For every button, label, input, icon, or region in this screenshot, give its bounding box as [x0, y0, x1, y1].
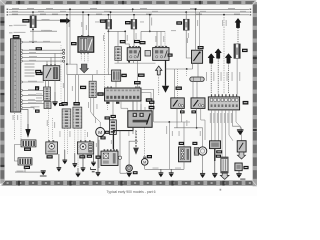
cigar lighter unit I (striped)	[221, 157, 228, 173]
label box 215	[87, 155, 92, 158]
diode unit J	[235, 163, 242, 171]
flasher/relay unit A with top pins	[127, 46, 140, 60]
fuel gauge sender (striped box)	[18, 158, 32, 165]
wire connector feeds 2	[67, 75, 69, 102]
junction bus X right	[223, 14, 225, 16]
label box 203 (connector E)	[243, 101, 249, 105]
junction bus 30 at 133	[132, 8, 134, 10]
wire bottom run y63	[115, 62, 156, 64]
washer pump M2 circle	[198, 147, 206, 155]
wire pill out 1	[192, 81, 194, 98]
wire code beside 150 drop	[150, 18, 153, 26]
wire C30 out 2	[94, 98, 100, 128]
wire bus 15 to ignition switch	[82, 12, 84, 37]
wire ignition out dashed 2	[83, 52, 85, 61]
wire 141 drop	[140, 31, 142, 40]
main harness connector E with pin row	[208, 94, 239, 110]
wire 150 drop	[149, 15, 151, 32]
wire 125 down to unit A	[125, 31, 129, 47]
border frame bottom bar with grid cells	[2, 180, 256, 186]
wire fuse panel out t1	[23, 49, 63, 51]
wire up arrow stem	[158, 75, 160, 95]
wire relay out to arrow	[54, 81, 56, 92]
wire C41 out	[117, 60, 119, 63]
wire connE out 2	[214, 110, 216, 141]
junction bus 15 ignition feed	[82, 11, 84, 13]
bold down arrow from ignition switch	[80, 64, 88, 73]
wire fuse 5 out	[236, 58, 238, 94]
wire M3 out	[144, 165, 146, 169]
relay K (right edge)	[237, 141, 246, 152]
wire fuse panel out b3	[23, 94, 43, 96]
wire ground run y169	[145, 168, 184, 170]
scattered wire code labels	[13, 20, 227, 147]
wire connE out 5	[225, 110, 227, 157]
wire relay coil feed 2	[50, 57, 52, 65]
junction bus 30 at 70	[69, 8, 71, 10]
hazard/relay unit B with top pins	[153, 46, 169, 60]
wire gauge1 feed2 dashed	[52, 118, 54, 142]
wire fuse 1 output to arrow	[36, 19, 60, 21]
wire fuse panel out t3	[23, 56, 63, 58]
wire light switch feed 3	[144, 107, 146, 111]
junction at 125	[124, 31, 126, 33]
wire fuse panel bottom to gauges	[21, 110, 28, 125]
label box 220 (horn)	[133, 171, 138, 174]
label box 213 (temp gauge)	[47, 155, 53, 158]
junction fuse 1 to panel wire	[32, 41, 34, 43]
ground arrow g6	[76, 168, 81, 177]
wire connE out 4	[221, 110, 223, 157]
label box 119	[179, 142, 184, 145]
ground arrow right mid	[237, 130, 244, 135]
wire switch E1 out mid	[181, 108, 183, 122]
wire drop to main fuse box	[32, 30, 34, 43]
label box 142	[105, 116, 110, 119]
ground arrow g3	[57, 154, 62, 172]
wire run to pump	[197, 128, 203, 147]
label box 126	[134, 40, 140, 43]
label box 163 (relay feed)	[36, 47, 42, 50]
wire strip out 4	[132, 101, 134, 111]
wire relay out 1	[45, 81, 47, 87]
label box 162 (relay)	[35, 70, 41, 73]
wire light switch left feed	[121, 108, 128, 111]
label box 94	[138, 74, 145, 77]
label box 230	[80, 86, 86, 89]
wire pump ground	[202, 155, 204, 170]
ground arrow unit H	[212, 161, 217, 178]
ground arrow unit J	[236, 171, 241, 178]
wire unit A out 1	[129, 60, 131, 63]
label box 190	[176, 87, 182, 90]
hollow down arrow under unit I	[220, 173, 229, 179]
washer pump body (hatched)	[194, 148, 199, 156]
ground arrow g4	[81, 154, 86, 172]
wire fuse 2 feed	[107, 15, 109, 20]
wire switch E2 out 2	[201, 108, 205, 140]
label box 221 (washer pump)	[147, 155, 152, 158]
wire bus 30 (top supply rail)	[9, 8, 249, 10]
ground arrow hr2	[169, 169, 174, 177]
wire code label row 2	[14, 24, 27, 27]
label box 217	[100, 136, 105, 139]
label box 128	[121, 74, 127, 77]
temperature gauge (box with dial)	[46, 140, 58, 154]
wire resistor feed	[183, 122, 185, 147]
windscreen washer pump M3 (small)	[141, 157, 148, 166]
label box 234	[216, 150, 222, 153]
wire horizontal run y75	[67, 74, 112, 76]
junction below fuse 2	[108, 31, 110, 33]
wire long vertical 67	[66, 15, 68, 75]
wire junction to ground run	[168, 122, 170, 169]
ground arrow g5	[91, 154, 96, 166]
wire code labels on supply buses	[12, 8, 246, 15]
wire unit A out 2	[133, 60, 135, 63]
label box 235	[216, 155, 221, 158]
wire heater run	[174, 127, 197, 129]
wire light switch feed 2	[140, 104, 142, 111]
label box 95	[134, 81, 141, 84]
wire connector feeds	[64, 61, 66, 102]
label box 111 (light switch)	[149, 106, 155, 109]
wire gauge2 feed	[84, 130, 86, 142]
junction fuse 1 lower	[32, 29, 34, 31]
label box 240 (fuse panel)	[13, 35, 20, 38]
label box 113 (switch E1)	[180, 110, 185, 113]
wire fuse 2 feed b	[110, 12, 112, 19]
label box 199 (fuse 4)	[176, 21, 182, 24]
blower resistor unit L	[179, 147, 191, 162]
wire fuse 2 out	[107, 29, 109, 31]
battery terminal bracket	[91, 167, 97, 172]
wire gauge feed dashed a	[14, 113, 16, 140]
svg-text:M: M	[143, 160, 146, 164]
wire relay coil feed 1	[46, 61, 48, 66]
wire unit B feed 1	[156, 31, 158, 47]
wire strip out 3	[120, 101, 122, 109]
wiper motor M1	[96, 128, 105, 137]
wire strip out 5	[136, 101, 138, 111]
wire drop to switch E1 a	[174, 69, 176, 98]
label box 200 (fuse 5)	[242, 49, 248, 52]
wire gauge1 feed dashed	[48, 109, 50, 142]
label box 143	[111, 115, 116, 118]
wire fuse panel out b2	[23, 89, 43, 91]
label box 204 (strip right)	[146, 98, 153, 102]
label box 241 (stabiliser)	[24, 148, 31, 151]
wire 133 drop	[132, 9, 134, 12]
wire conn A out 1	[64, 128, 66, 150]
wire horn feed	[129, 141, 138, 165]
wire stabiliser to sender	[15, 145, 22, 162]
light switch assembly	[128, 111, 152, 128]
label box 120	[192, 142, 197, 145]
wire switch E1 out 1	[176, 108, 178, 127]
wire drop to inline fuse	[186, 69, 188, 77]
junction unit A out	[128, 61, 130, 63]
wire code label 30/1	[42, 18, 50, 21]
wire conn A out 2	[67, 128, 69, 154]
wire code label row 3	[14, 31, 26, 34]
label box 197 (fuse 2)	[100, 19, 106, 22]
wire connE out 1	[211, 110, 213, 141]
wire down to relay plate	[107, 31, 109, 74]
connector C12 upper	[44, 87, 51, 100]
connector C12 lower	[44, 102, 51, 109]
label box 198 (fuse 3)	[125, 21, 131, 24]
connector C30	[89, 81, 96, 97]
label box 202 (connector)	[73, 102, 79, 106]
wire switch D out 2	[197, 63, 199, 77]
border frame left bar with grid cells	[0, 0, 7, 184]
fuse F1	[30, 16, 36, 28]
fuse and relay panel (main box)	[11, 39, 21, 112]
fuse F5	[234, 44, 240, 59]
junction lighting run	[168, 121, 170, 123]
wire M3 feed dashed	[144, 127, 146, 156]
wire unit H ground heavy	[214, 149, 216, 161]
wire dashed to connector strip	[104, 33, 106, 88]
bold down arrow into voltage stabiliser	[25, 124, 30, 138]
label box 216 (wiper motor)	[105, 131, 110, 134]
bold up arrow 3	[225, 54, 231, 94]
label box 77	[35, 110, 40, 113]
label box 108 (fuse 1)	[22, 19, 29, 23]
wire connE out 8	[236, 110, 242, 141]
relay K1 (load relay)	[43, 64, 60, 80]
wire C41 feed	[117, 31, 119, 46]
ground G5 with bar	[40, 171, 47, 176]
wire fuse 3 feed	[133, 15, 135, 20]
wire resistor out	[183, 162, 185, 170]
wire bus X to ignition switch	[88, 15, 90, 37]
wire unit B feed 2	[160, 31, 162, 47]
wire mid run y31	[141, 30, 165, 32]
wire 224 drop	[223, 15, 225, 94]
wiper delay unit (striped)	[110, 120, 117, 134]
wire fuse 1 feed	[32, 12, 34, 16]
junction run y31 at 150	[149, 31, 151, 33]
ground arrow pump	[200, 170, 205, 178]
arrow under heavy drop	[133, 148, 139, 155]
wire C30 out 1	[91, 98, 96, 123]
junction bus X ignition feed	[88, 14, 90, 16]
hollow down arrow below relay K	[238, 152, 246, 159]
wire branch up to connectors	[75, 75, 77, 102]
label box 140	[59, 103, 64, 106]
bold up arrow 1	[208, 54, 214, 94]
wire trunk 165	[165, 60, 167, 85]
wire code list beside fuse panel	[25, 64, 35, 77]
wire switch E2 out	[196, 108, 198, 127]
wire stub left margin row 2	[9, 25, 13, 27]
wire code label 54	[41, 29, 50, 32]
terminal rings right of fuse panel wires	[63, 49, 65, 62]
connector H2-B	[73, 107, 82, 128]
wire strip out right 1	[141, 90, 154, 123]
wire conn B out 3	[80, 128, 82, 142]
inline connector between units A and B	[145, 51, 151, 57]
bold up arrow 4 (top)	[235, 18, 241, 44]
wire fuse panel out 30	[23, 41, 61, 43]
wire fuse 4 feed	[185, 12, 187, 19]
wire gauge feed dashed b	[20, 113, 22, 140]
wire bus 15 (middle supply rail)	[9, 11, 249, 13]
tiny note 240	[240, 178, 245, 180]
wire switch D out 1	[192, 63, 194, 69]
ignition switch assembly	[78, 35, 94, 53]
main bulkhead connector strip	[105, 87, 142, 102]
ground arrow via C12	[52, 92, 57, 106]
label box 125 (unit A)	[120, 40, 126, 43]
node terminal numbers at left bus ends	[7, 9, 9, 16]
wire lower branch horizontal	[30, 30, 57, 32]
label box 127 (unit B)	[168, 54, 173, 57]
wire switch run right	[154, 121, 190, 123]
label box 96	[140, 41, 146, 44]
wire fuse panel out b6	[23, 108, 34, 110]
wire unit A out 3	[137, 60, 139, 88]
wire relay out 2	[48, 81, 50, 87]
wire link 67-77	[67, 64, 77, 75]
wiper relay G with pins	[101, 149, 118, 165]
junction lighting run y69	[186, 68, 188, 70]
label box 214 (fuel gauge)	[79, 155, 85, 158]
wire light switch out	[132, 127, 134, 134]
page mark 7	[220, 189, 222, 191]
wire conn B out 1	[74, 128, 76, 153]
label box 229 (relay G)	[96, 156, 101, 159]
wire fuse panel out b4	[23, 100, 43, 102]
fuse F4	[183, 19, 189, 30]
wire relay feed 3	[54, 53, 56, 65]
wire stub left margin row 3	[9, 32, 13, 34]
label box 105	[149, 101, 154, 104]
svg-text:Typical early 900 models - par: Typical early 900 models - part 6	[107, 190, 156, 194]
fuse F3	[131, 19, 137, 29]
inline connector circle on lead	[118, 131, 126, 174]
connector C41	[115, 47, 122, 61]
interface unit with stripe	[112, 70, 121, 81]
wire connE out 6	[229, 110, 233, 141]
ground arrow hr1	[158, 169, 163, 177]
wire fuse panel out b1	[23, 81, 44, 83]
node terminal numbers at right bus ends	[250, 9, 252, 16]
junction bus 15 fuse 4	[185, 11, 187, 13]
wire pill out 2	[196, 81, 198, 98]
wire 165 drop to unit B	[164, 31, 166, 47]
label box 164 (ignition switch)	[71, 42, 77, 45]
border frame right bar with grid cells	[253, 2, 257, 186]
label box 178	[36, 72, 43, 75]
wire unit to strip	[115, 81, 117, 88]
wire delay unit out	[112, 134, 114, 149]
control unit H (right)	[210, 141, 221, 149]
wire light switch feed 1	[132, 101, 134, 111]
wire connE out 3	[218, 110, 220, 141]
junction bus 15 fuse 2	[110, 11, 112, 13]
wire sender ground right	[25, 171, 41, 173]
junction bus X at 67	[66, 14, 68, 16]
wire drop to switch E1 b	[177, 69, 179, 98]
column stalk switch D	[192, 50, 203, 63]
wire fuse 1 lower branch	[32, 28, 34, 30]
label box 201 (connector)	[61, 102, 67, 106]
wire switch D feed 1	[195, 9, 197, 50]
label box 206	[35, 86, 39, 89]
wire fuse panel out t4	[23, 60, 63, 62]
wire strip out 6	[141, 101, 145, 111]
connector H2-A	[62, 109, 71, 128]
label box 115 (switch E2)	[191, 110, 196, 113]
hollow up arrow below unit B	[156, 66, 162, 75]
label box 237	[243, 166, 248, 169]
fuse F2	[106, 19, 112, 29]
junction 67/64	[66, 63, 68, 65]
ground arrow g1	[62, 150, 67, 164]
inline fuse holder (pill)	[190, 77, 204, 81]
junction heater run	[196, 127, 198, 129]
ground arrow g7	[96, 136, 101, 176]
wire connE out 7 to ground	[233, 110, 241, 129]
stub terminals under strip	[106, 102, 119, 104]
ground arrow g2	[72, 153, 77, 168]
wire lighting run y69	[166, 68, 193, 70]
fuse panel terminal circles	[21, 41, 23, 109]
wire fuse panel out b5	[23, 103, 44, 105]
wire strip out 2	[112, 101, 114, 120]
wire heavy dashed drop	[135, 131, 137, 148]
wire switch D feed 2	[199, 12, 201, 50]
wire fuse 4 out	[186, 30, 191, 58]
junction bus X at 150	[149, 14, 151, 16]
label box 205 (strip)	[97, 92, 103, 96]
bold up arrow 2	[215, 49, 221, 94]
wire strip out 1	[107, 101, 109, 110]
wire conn B out 2	[77, 128, 79, 168]
wire fuse panel out t2	[23, 52, 63, 54]
junction bus 15 / fuse 1 drop	[32, 11, 34, 13]
wire fuse 3 out	[133, 29, 135, 48]
label box 117 (switch D)	[198, 46, 204, 49]
wire long vertical 70	[69, 9, 71, 64]
continuation arrow to part 5 (right)	[60, 18, 71, 24]
wire motor ground	[98, 140, 100, 168]
junction bus X fuse 3	[133, 14, 135, 16]
wire junction run right	[108, 30, 125, 32]
wire branch up to connectors 2	[78, 75, 80, 102]
ground arrow under horn	[126, 173, 132, 178]
wire bus X (lower supply rail)	[9, 14, 249, 16]
rocker switch E2	[191, 98, 205, 109]
junction bus X fuse 2	[108, 14, 110, 16]
rocker switch E1	[171, 98, 185, 109]
wire sender to ground run	[15, 165, 25, 172]
bold down arrow on trunk	[162, 86, 169, 93]
voltage stabiliser (striped box)	[21, 140, 36, 147]
wire ignition out dashed 1	[80, 52, 82, 60]
wire heavy lead bar	[114, 127, 134, 149]
horn H1 (circle)	[126, 165, 133, 172]
label box 231	[35, 87, 39, 90]
junction bus 30 switch D	[195, 8, 197, 10]
border frame corner miter seams	[0, 0, 257, 186]
border frame top bar with grid cells	[2, 0, 256, 5]
fuel gauge (box with dial)	[77, 140, 93, 154]
wire C30 feed top	[92, 75, 94, 82]
